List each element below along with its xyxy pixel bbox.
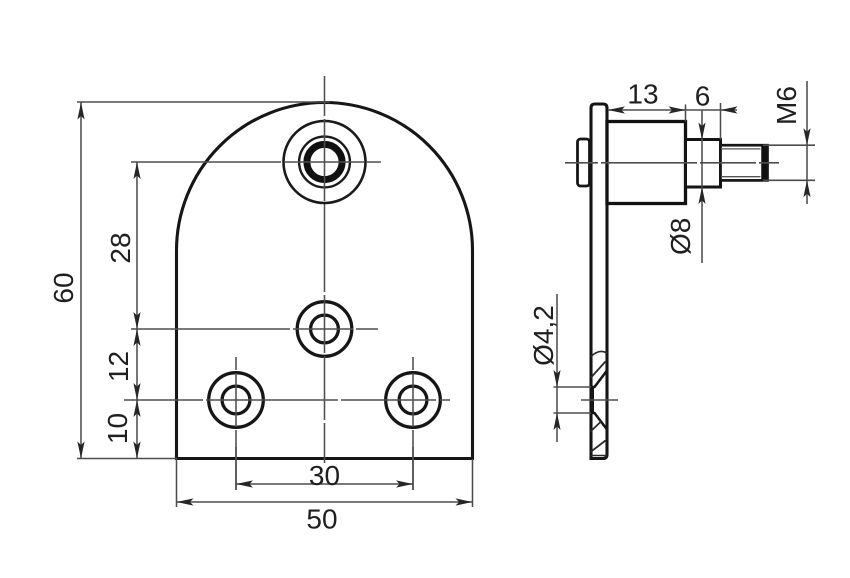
bottom-left hole vertical centerline — [235, 357, 237, 490]
arrow 13 right / 6 left — [669, 106, 686, 113]
svg-text:13: 13 — [627, 79, 658, 110]
bottom-right hole inner — [399, 386, 427, 414]
dim oe8 line — [701, 110, 703, 263]
arrow 50 left — [177, 498, 194, 505]
countersink cone lower line — [591, 413, 608, 430]
dim oe4.2 line — [556, 294, 558, 442]
dim 6 extension left (boss edge up) — [685, 105, 687, 122]
top hole middle circle — [299, 137, 350, 188]
svg-text:Ø4,2: Ø4,2 — [528, 305, 559, 366]
middle hole outer — [297, 302, 352, 357]
arrow oe8 top — [698, 123, 705, 140]
hatch line below hole 2 — [591, 441, 606, 453]
top hole boss circle — [284, 121, 366, 203]
dim 30 line — [236, 483, 413, 485]
stud thread root line bottom — [721, 176, 761, 178]
arrow 30 left — [236, 480, 253, 487]
arrow M6 top — [803, 128, 810, 145]
dim 30 extension right — [412, 447, 414, 490]
hole bore edge — [591, 387, 594, 413]
svg-text:50: 50 — [306, 504, 337, 535]
arrow 13 left — [608, 106, 625, 113]
arrow 10 bottom — [133, 442, 140, 459]
side view horizontal centerline — [565, 162, 779, 164]
dim 13/6 line — [608, 109, 737, 111]
dim oe4.2 extension bottom — [554, 412, 592, 414]
countersink cone upper line — [591, 371, 608, 388]
dim 30 extension left — [235, 447, 237, 490]
bottom-right hole outer — [386, 373, 441, 428]
back head — [578, 139, 590, 186]
svg-text:10: 10 — [102, 413, 133, 444]
FRONT VIEW — [124, 76, 473, 490]
bottom-left hole outer — [209, 373, 264, 428]
plate outline (arched mounting plate) — [177, 103, 473, 459]
arrow 28 top — [133, 162, 140, 179]
arrow 6 right (external) — [721, 106, 738, 113]
dim M6 extension top — [763, 144, 815, 146]
top hole threaded stud ring — [307, 144, 342, 179]
svg-text:Ø8: Ø8 — [665, 218, 696, 255]
bottom-right hole vertical centerline — [412, 357, 414, 490]
middle hole horizontal centerline — [131, 328, 378, 330]
svg-text:12: 12 — [103, 351, 134, 382]
hatch line above hole — [591, 362, 606, 378]
dim 60 line — [80, 102, 82, 459]
dim 28/12/10 line — [136, 162, 138, 459]
arrow 60 bottom — [77, 442, 84, 459]
arrow oe8 bottom — [698, 187, 705, 204]
dim oe4.2 extension top — [554, 386, 592, 388]
bottom-left hole inner — [222, 386, 250, 414]
svg-text:M6: M6 — [771, 86, 802, 125]
SIDE VIEW — [565, 104, 779, 459]
boss cylinder — [607, 122, 686, 204]
arrow 10 top — [133, 400, 140, 417]
arrow 28 bottom — [133, 312, 140, 329]
vertical centerline of plate — [324, 76, 326, 463]
arrow 50 right — [456, 498, 473, 505]
dim 50 extension right — [472, 459, 474, 507]
arrow oe4.2 bottom — [553, 413, 560, 430]
section break line — [591, 351, 607, 356]
middle hole inner — [311, 315, 339, 343]
countersunk hole short centerline — [581, 399, 618, 401]
arrow M6 bottom — [803, 180, 810, 197]
bottom face line — [591, 455, 607, 457]
dim 60/10 extension line bottom — [77, 458, 177, 460]
arrow 60 top — [77, 103, 84, 120]
svg-text:6: 6 — [695, 81, 711, 112]
dim M6 line — [806, 81, 808, 204]
svg-text:30: 30 — [309, 460, 340, 491]
top hole horizontal centerline — [131, 161, 384, 163]
svg-text:60: 60 — [48, 272, 79, 303]
dim M6 extension bottom — [763, 179, 815, 181]
arrow 30 right — [396, 480, 413, 487]
hatch line below hole 1 — [591, 422, 602, 432]
arrow 12 top — [133, 329, 140, 346]
DIMENSIONS — [77, 81, 815, 507]
bottom holes horizontal centerline — [124, 399, 450, 401]
svg-text:28: 28 — [105, 232, 136, 263]
dim 6 extension right — [720, 103, 722, 140]
dim 60 extension line top — [77, 101, 330, 103]
M6 stud — [721, 145, 768, 180]
arrow 12 bottom — [133, 383, 140, 400]
stud thread root line top — [721, 148, 761, 150]
dim 50 line — [177, 501, 473, 503]
plate bar (side view of plate) — [591, 104, 607, 459]
oe8 cylinder — [686, 140, 721, 188]
dim 50 extension left — [176, 459, 178, 507]
stud end chamfer band — [761, 146, 767, 179]
arrow oe4.2 top — [553, 370, 560, 387]
